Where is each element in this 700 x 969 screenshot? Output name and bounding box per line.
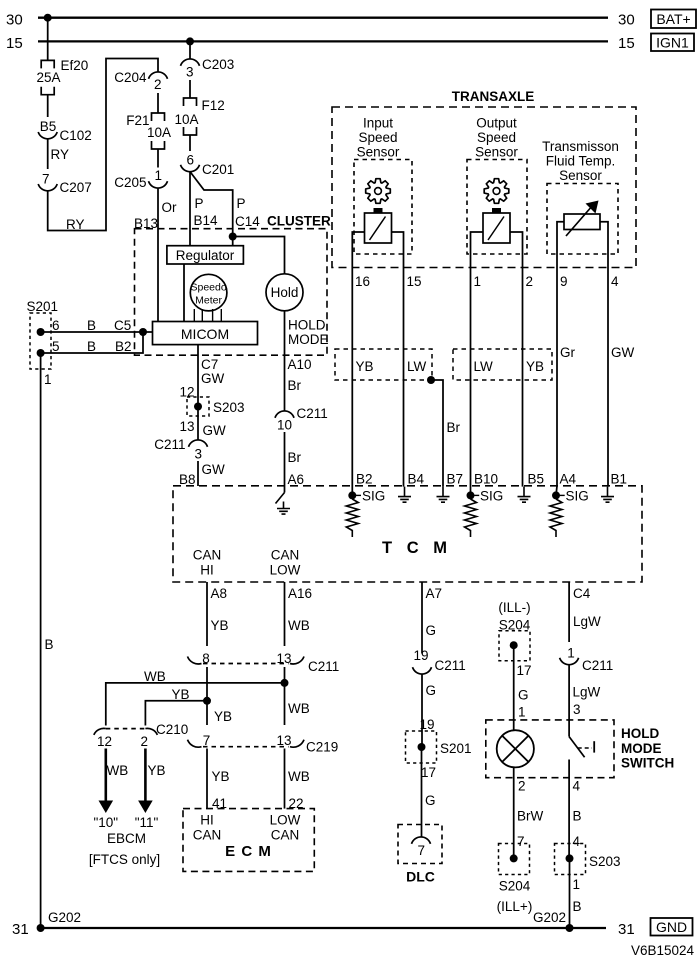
bus 15 (IGN1) [38, 40, 608, 42]
svg-text:S201: S201 [27, 299, 59, 314]
regulator box [167, 246, 244, 264]
ground at B5 [518, 487, 531, 503]
svg-text:4: 4 [573, 834, 581, 849]
thermistor RT1 [564, 214, 600, 230]
input speed sensor box [354, 160, 412, 255]
wire YB C211-8 to C219-7 [206, 667, 208, 725]
wire LgW C211 to switch [568, 665, 570, 737]
svg-text:10: 10 [277, 418, 292, 433]
svg-text:30: 30 [6, 12, 23, 29]
wire LgW TCM C4 to C211-1 [568, 582, 570, 642]
svg-text:MODE: MODE [288, 332, 329, 347]
svg-text:1: 1 [155, 168, 163, 183]
ground at A6 [277, 502, 290, 515]
svg-text:V6B15024: V6B15024 [631, 943, 695, 958]
svg-text:WB: WB [288, 769, 310, 784]
wire B S201-6 to MICOM C5 [41, 331, 153, 333]
node G202 left [37, 924, 45, 932]
svg-text:"10": "10" [93, 815, 118, 830]
svg-text:15: 15 [407, 274, 422, 289]
svg-text:Transmisson: Transmisson [542, 139, 619, 154]
svg-text:15: 15 [618, 35, 635, 52]
GND box [651, 918, 693, 936]
wire P C201 to Regulator pin B14 [189, 172, 191, 246]
svg-text:7: 7 [517, 834, 525, 849]
svg-text:YB: YB [526, 359, 544, 374]
svg-text:WB: WB [288, 618, 310, 633]
label SIG B2 [356, 494, 361, 496]
svg-text:LgW: LgW [573, 614, 601, 629]
ECM box [183, 809, 314, 872]
wire YB sensor2 to TCM B5 [522, 254, 524, 487]
svg-text:30: 30 [618, 12, 635, 29]
wire YB sensor16 to TCM B2 [351, 254, 353, 495]
node SIG B2 [348, 491, 356, 499]
svg-text:C201: C201 [202, 162, 234, 177]
svg-text:SIG: SIG [362, 489, 385, 504]
svg-text:2: 2 [141, 734, 149, 749]
svg-text:Br: Br [288, 378, 302, 393]
svg-text:EBCM: EBCM [107, 831, 146, 846]
wire bus30 to fuse Ef20 [47, 18, 49, 61]
svg-text:Br: Br [288, 450, 302, 465]
svg-text:C219: C219 [306, 740, 338, 755]
svg-text:10A: 10A [147, 125, 171, 140]
svg-text:B1: B1 [611, 472, 628, 487]
svg-text:7: 7 [203, 733, 211, 748]
switch actuator bar [593, 741, 595, 752]
svg-text:S201: S201 [440, 741, 472, 756]
svg-text:Sensor: Sensor [559, 168, 602, 183]
connector C203 [181, 59, 200, 66]
svg-text:Output: Output [476, 116, 517, 131]
node S201 pin5 [37, 349, 45, 357]
node: junction bus15 / C203 feed [186, 37, 194, 45]
svg-text:E C M: E C M [225, 843, 272, 860]
resistor SIG B2 [346, 499, 358, 537]
connector C207 [38, 184, 57, 191]
svg-text:G: G [518, 688, 529, 703]
svg-text:Br: Br [447, 420, 461, 435]
TRANSAXLE box [332, 107, 636, 268]
node S201 pin6 [37, 328, 45, 336]
svg-text:B5: B5 [528, 472, 545, 487]
svg-text:CAN: CAN [193, 828, 222, 843]
svg-text:BAT+: BAT+ [656, 11, 690, 27]
svg-text:HI: HI [200, 813, 214, 828]
node G202 right [566, 924, 574, 932]
wire input sensor pins [352, 232, 364, 254]
svg-text:G: G [426, 683, 437, 698]
svg-text:HOLD: HOLD [288, 318, 326, 333]
svg-text:C102: C102 [60, 128, 92, 143]
splice S201 right [406, 731, 437, 763]
wire GW MICOM C7 to splice S203 [197, 345, 199, 407]
svg-text:LgW: LgW [573, 685, 601, 700]
svg-text:F12: F12 [202, 98, 225, 113]
svg-text:Sensor: Sensor [357, 145, 400, 160]
svg-text:Meter: Meter [195, 295, 222, 307]
svg-text:GW: GW [611, 345, 635, 360]
switch actuator dashes [578, 747, 592, 749]
connector C211 pin 19 [413, 667, 432, 674]
fuse F21 10A [152, 113, 165, 121]
svg-text:Regulator: Regulator [176, 248, 235, 263]
svg-text:YB: YB [356, 359, 374, 374]
svg-text:31: 31 [618, 921, 635, 938]
svg-text:TRANSAXLE: TRANSAXLE [452, 89, 535, 104]
svg-text:C211: C211 [308, 659, 339, 674]
svg-text:C210: C210 [156, 722, 188, 737]
wire YB branch to C210-2 [145, 701, 207, 726]
node YB branch [203, 697, 211, 705]
splice S203 [187, 397, 209, 416]
wire WB C219-13 to ECM 22 [284, 749, 286, 809]
svg-text:Ef20: Ef20 [61, 58, 89, 73]
node: junction C5/B2 wires [139, 328, 147, 336]
connector C204 [149, 72, 168, 79]
svg-text:WB: WB [107, 763, 129, 778]
svg-text:19: 19 [420, 717, 435, 732]
wire switch to S203 [568, 760, 570, 859]
svg-text:MODE: MODE [621, 741, 662, 756]
CLUSTER module box [135, 229, 328, 356]
svg-text:C211: C211 [582, 658, 613, 673]
svg-text:CAN: CAN [271, 548, 300, 563]
DLC box [398, 825, 442, 864]
svg-text:G: G [425, 793, 436, 808]
svg-text:5: 5 [52, 339, 60, 354]
wire Gr sensor9 to TCM A4 [556, 254, 558, 486]
BAT+ box [651, 10, 696, 29]
wire GW sensor4 to TCM B1 [607, 254, 609, 487]
color label box input [335, 349, 432, 380]
node WB branch [281, 679, 289, 687]
svg-text:2: 2 [526, 274, 534, 289]
svg-text:Or: Or [162, 200, 178, 215]
svg-text:C211: C211 [435, 658, 466, 673]
svg-text:SWITCH: SWITCH [621, 756, 674, 771]
svg-text:17: 17 [517, 663, 532, 678]
svg-text:SIG: SIG [566, 489, 589, 504]
splice S203 right [555, 844, 586, 875]
wire WB C210 to EBCM 10 [105, 749, 108, 803]
svg-text:B2: B2 [356, 472, 373, 487]
svg-text:17: 17 [421, 765, 436, 780]
wire C14 node to Hold lamp [233, 237, 285, 274]
connector C211 pin 10 [275, 411, 294, 418]
svg-text:16: 16 [355, 274, 370, 289]
svg-text:HI: HI [200, 563, 214, 578]
HOLD MODE SWITCH box [486, 720, 614, 778]
TCM module box [173, 486, 642, 582]
svg-text:P: P [195, 196, 204, 211]
svg-text:[FTCS only]: [FTCS only] [89, 852, 160, 867]
splice S201 [30, 313, 51, 369]
svg-text:WB: WB [144, 669, 166, 684]
svg-text:31: 31 [12, 921, 29, 938]
svg-text:CLUSTER: CLUSTER [267, 214, 331, 229]
svg-text:B5: B5 [40, 119, 57, 134]
svg-text:6: 6 [52, 318, 60, 333]
resistor SIG A4 [550, 499, 562, 537]
svg-text:1: 1 [567, 646, 575, 661]
svg-text:15: 15 [6, 35, 23, 52]
ground at B1 [601, 487, 614, 503]
node Br tap [427, 376, 435, 384]
svg-text:Gr: Gr [560, 345, 576, 360]
MICOM box [153, 322, 258, 345]
svg-text:P: P [237, 196, 246, 211]
svg-text:Fluid Temp.: Fluid Temp. [546, 154, 616, 169]
IGN1 box [651, 34, 694, 52]
svg-text:YB: YB [212, 769, 230, 784]
svg-text:YB: YB [148, 763, 166, 778]
svg-text:G: G [426, 623, 437, 638]
svg-text:C207: C207 [60, 180, 92, 195]
svg-text:7: 7 [418, 843, 426, 858]
svg-text:T C M: T C M [382, 539, 452, 557]
node: junction bus30 / Ef20 feed [44, 14, 52, 22]
connector C102 [38, 132, 57, 139]
svg-text:MICOM: MICOM [181, 326, 229, 342]
switch SW1 blade [569, 737, 585, 758]
svg-text:C211: C211 [154, 437, 185, 452]
svg-text:Hold: Hold [271, 285, 299, 300]
svg-text:7: 7 [42, 172, 50, 187]
svg-text:2: 2 [154, 77, 162, 92]
svg-text:GW: GW [201, 371, 225, 386]
svg-text:A4: A4 [560, 472, 577, 487]
wire lamp to S204 ILL+ [513, 767, 515, 858]
fuse Ef20 25A [41, 60, 54, 68]
svg-text:Speed: Speed [358, 130, 397, 145]
svg-text:C203: C203 [202, 57, 234, 72]
wire Br tap to TCM B7 [431, 380, 443, 487]
wire LW sensor1 to TCM B10 [470, 254, 472, 495]
svg-text:A8: A8 [211, 586, 228, 601]
svg-text:3: 3 [195, 447, 203, 462]
svg-text:13: 13 [277, 733, 292, 748]
svg-text:4: 4 [573, 779, 581, 794]
bus 30 (BAT+) [38, 17, 608, 19]
fuse F12 10A [184, 98, 197, 106]
svg-text:B: B [45, 637, 54, 652]
svg-text:LOW: LOW [270, 813, 301, 828]
connector C201 [181, 165, 200, 172]
svg-text:1: 1 [518, 705, 526, 720]
wire LW sensor15 to TCM B4 [403, 254, 405, 487]
switch inside TCM at A6 [276, 493, 285, 504]
svg-text:Input: Input [363, 116, 393, 131]
svg-text:F21: F21 [126, 113, 149, 128]
wire Regulator to MICOM [183, 264, 185, 322]
svg-text:A6: A6 [288, 472, 305, 487]
svg-text:19: 19 [413, 648, 428, 663]
svg-text:1: 1 [44, 372, 52, 387]
svg-text:12: 12 [179, 385, 194, 400]
svg-text:B4: B4 [408, 472, 425, 487]
temp sensor box [547, 184, 618, 255]
splice S204 ILL+ [499, 844, 530, 875]
svg-text:RY: RY [51, 147, 70, 162]
svg-text:Speed: Speed [477, 130, 516, 145]
svg-text:C204: C204 [114, 70, 147, 85]
svg-text:A16: A16 [288, 586, 312, 601]
svg-text:B2: B2 [115, 339, 132, 354]
wire B S201 to ground bus G202 [40, 353, 42, 928]
wire Br Hold to connector C211-10 [284, 311, 286, 411]
input speed sensor U1 [366, 179, 391, 204]
connector C211 pin 3 [189, 440, 208, 447]
wire bus15 to connector C203 [189, 41, 191, 59]
svg-text:DLC: DLC [406, 869, 435, 885]
svg-text:YB: YB [172, 687, 190, 702]
svg-text:LW: LW [474, 359, 494, 374]
wire B S203 to G202 [569, 858, 571, 928]
wire A16 TCM to C211-13 [284, 582, 286, 646]
wire YB C219-7 to ECM 41 [206, 749, 208, 809]
svg-text:C7: C7 [201, 357, 218, 372]
output speed sensor U2 [484, 179, 509, 204]
speedometer to MICOM wires [193, 309, 195, 322]
wire YB C210 to EBCM 11 [144, 749, 147, 803]
svg-text:C205: C205 [114, 175, 146, 190]
svg-text:B: B [87, 339, 96, 354]
label SIG A4 [560, 494, 565, 496]
node: junction C14 wire to Hold branch [229, 233, 237, 241]
connector C211 8/13 dashed link [203, 663, 289, 665]
svg-text:"11": "11" [135, 815, 159, 830]
svg-text:YB: YB [211, 618, 229, 633]
svg-text:G202: G202 [48, 910, 81, 925]
svg-text:3: 3 [186, 65, 194, 80]
svg-text:S203: S203 [213, 400, 245, 415]
svg-text:HOLD: HOLD [621, 726, 659, 741]
svg-text:RY: RY [66, 217, 85, 232]
svg-text:A7: A7 [426, 586, 443, 601]
svg-text:Sensor: Sensor [475, 145, 518, 160]
svg-text:3: 3 [573, 702, 581, 717]
connector C210 pin 12 [94, 728, 106, 734]
svg-text:4: 4 [611, 274, 619, 289]
svg-text:G202: G202 [533, 910, 566, 925]
svg-text:2: 2 [518, 779, 526, 794]
ground at B7 [437, 487, 450, 503]
svg-text:C14: C14 [235, 214, 260, 229]
wire B S201-5 to cluster B2 [41, 332, 143, 353]
wire RY C102 to C207 [47, 139, 49, 169]
svg-text:B: B [573, 899, 582, 914]
connector DLC pin 7 [412, 837, 431, 844]
svg-text:C211: C211 [297, 406, 328, 421]
svg-text:WB: WB [288, 701, 310, 716]
wire Or C205 to cluster pin B13 [157, 188, 159, 322]
Hold indicator circle [266, 274, 303, 311]
svg-text:B8: B8 [179, 472, 196, 487]
svg-text:12: 12 [97, 734, 112, 749]
wire G S201 to DLC [421, 747, 423, 837]
wire GW C211 to TCM B8 [197, 461, 199, 486]
connector C210 dashed link [106, 728, 146, 730]
svg-text:1: 1 [573, 877, 581, 892]
svg-text:B7: B7 [447, 472, 464, 487]
wire G TCM A7 to C211-19 [421, 582, 423, 654]
color label box output [453, 349, 552, 380]
svg-text:CAN: CAN [271, 828, 300, 843]
svg-text:Speedo: Speedo [190, 282, 226, 294]
node SIG B10 [467, 491, 475, 499]
wire Ef20 to connector C102 [47, 95, 49, 117]
svg-text:GND: GND [656, 919, 687, 935]
svg-text:S204: S204 [499, 879, 531, 894]
svg-text:GW: GW [202, 462, 226, 477]
wire YB TCM A8 to C211-8 [206, 582, 208, 646]
illumination lamp [497, 730, 534, 767]
svg-text:GW: GW [203, 423, 227, 438]
node SIG A4 [552, 491, 560, 499]
svg-text:C5: C5 [114, 318, 131, 333]
svg-text:6: 6 [187, 153, 195, 168]
speedometer circle [190, 274, 227, 311]
label SIG B10 [474, 494, 479, 496]
svg-text:13: 13 [179, 419, 194, 434]
wire WB C211-13 to C219-13 [284, 667, 286, 725]
wire RY C207 to C204 [48, 59, 158, 231]
svg-text:C4: C4 [573, 586, 591, 601]
wire F12 to connector C201 [189, 135, 191, 151]
svg-text:(ILL-): (ILL-) [498, 600, 530, 615]
wire F21 to connector C205 [157, 149, 159, 168]
svg-text:9: 9 [560, 274, 568, 289]
svg-text:25A: 25A [36, 70, 60, 85]
connector C210 pin 2 [145, 728, 157, 734]
svg-text:13: 13 [277, 651, 292, 666]
svg-text:B: B [87, 318, 96, 333]
output speed sensor box [467, 160, 527, 255]
ground at B4 [398, 487, 411, 503]
wire WB branch to C210-12 [106, 683, 285, 726]
connector C205 [149, 181, 168, 188]
resistor SIG B10 [465, 499, 477, 537]
wire G C211 to splice S201 [421, 674, 423, 747]
svg-text:10A: 10A [174, 112, 198, 127]
splice S204 [499, 631, 530, 661]
wire Br C211 to TCM A6 [284, 432, 286, 493]
wire G S204 to lamp [513, 645, 515, 730]
svg-text:(ILL+): (ILL+) [497, 899, 533, 914]
wire output sensor pins [471, 232, 484, 254]
wire P C201 to pin C14 [190, 172, 233, 246]
connector C211 pin 1 [560, 658, 579, 665]
svg-text:CAN: CAN [193, 548, 222, 563]
svg-text:LW: LW [407, 359, 427, 374]
svg-text:B14: B14 [194, 213, 219, 228]
wire C204 to fuse F21 [157, 93, 159, 113]
connector C219 dashed link [203, 746, 289, 748]
bus 31 (GND) [41, 927, 606, 929]
wire GW S203 to connector C211-3 [197, 407, 199, 441]
svg-text:LOW: LOW [270, 563, 301, 578]
svg-text:SIG: SIG [480, 489, 503, 504]
svg-text:YB: YB [214, 709, 232, 724]
svg-text:1: 1 [474, 274, 482, 289]
svg-text:BrW: BrW [517, 809, 544, 824]
svg-text:IGN1: IGN1 [656, 35, 689, 51]
svg-text:B10: B10 [474, 472, 498, 487]
wire C203 to fuse F12 [189, 80, 191, 98]
wire temp sensor pins [557, 222, 564, 254]
